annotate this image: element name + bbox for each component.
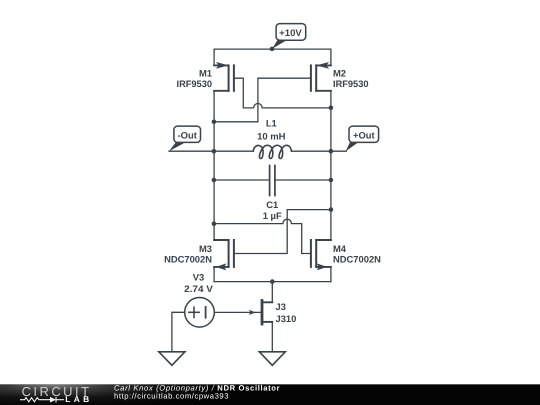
svg-text:V3: V3 (193, 272, 204, 283)
wire M4 gate to M3 drain node (hop over x=287.2) (214, 219, 311, 253)
svg-text:-Out: -Out (178, 129, 197, 140)
node dot C1 right (329, 178, 334, 183)
voltage source V3 (185, 298, 215, 328)
svg-text:L1: L1 (266, 117, 277, 128)
svg-text:http://circuitlab.com/cpwa393: http://circuitlab.com/cpwa393 (114, 392, 229, 401)
transistor M3 body (214, 240, 234, 282)
svg-text:10 mH: 10 mH (257, 131, 286, 142)
inductor L1 (214, 145, 331, 158)
svg-text:NDC7002N: NDC7002N (164, 254, 212, 265)
ground left (159, 352, 185, 366)
transistor J3 (JFET) (214, 282, 272, 352)
transistor M1 body (214, 62, 234, 91)
wire M3 gate to M4 drain node (234, 210, 331, 254)
node dot J3 drain tap (270, 279, 275, 284)
svg-text:1 µF: 1 µF (263, 210, 282, 221)
wire M2 gate to M1 drain node (214, 78, 311, 122)
ground right (259, 352, 285, 366)
svg-text:2.74 V: 2.74 V (184, 283, 214, 294)
svg-text:IRF9530: IRF9530 (333, 78, 369, 89)
flag +Out (331, 126, 379, 151)
wire -Out stub (169, 150, 214, 152)
svg-text:M4: M4 (333, 243, 347, 254)
wire top rail +10V (214, 49, 331, 65)
node dot M4 drain / M3 gate (329, 207, 334, 212)
svg-text:IRF9530: IRF9530 (177, 78, 213, 89)
node dot C1 left (212, 178, 217, 183)
node dot M2 drain / M1 gate (329, 106, 334, 111)
svg-text:J310: J310 (276, 313, 297, 324)
node dot M1 drain / M2 gate (212, 120, 217, 125)
node dot L1 right (329, 149, 334, 154)
wire M1 gate to M2 drain node (hop over x=257.9) (234, 78, 331, 108)
svg-text:+Out: +Out (353, 129, 375, 140)
wire V3 to ground (172, 312, 185, 352)
transistor M2 body (311, 62, 331, 91)
wire left column (213, 91, 215, 240)
svg-text:J3: J3 (276, 301, 286, 312)
node dot L1 left (212, 149, 217, 154)
svg-text:M3: M3 (199, 243, 212, 254)
node +10V tap dot (270, 47, 275, 52)
wire right column (330, 91, 332, 240)
svg-text:+10V: +10V (279, 27, 302, 38)
wire bottom source rail (214, 281, 331, 283)
flag -Out (169, 126, 201, 151)
transistor M4 body (311, 240, 331, 282)
flag +10V (272, 24, 306, 49)
svg-text:C1: C1 (266, 199, 278, 210)
capacitor C1 (214, 166, 331, 196)
svg-text:LAB: LAB (65, 394, 92, 404)
svg-text:NDC7002N: NDC7002N (333, 254, 381, 265)
node dot M3 drain / M4 gate (212, 221, 217, 226)
logo resistor-diode squiggle (20, 397, 64, 403)
footer bar (0, 384, 540, 405)
